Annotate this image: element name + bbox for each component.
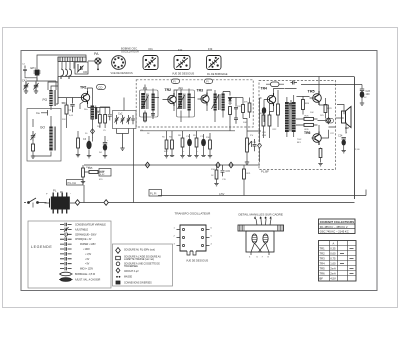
capacitor C13 — [234, 113, 238, 124]
speaker HP — [342, 107, 352, 128]
small resistor in GO box — [32, 144, 35, 151]
ground under C03 — [87, 156, 91, 158]
electrolytic C16 — [262, 100, 266, 123]
table frequencies — [319, 219, 356, 234]
transformer FI3 primary — [214, 94, 217, 111]
resistor R8 — [181, 138, 184, 147]
svg-text:PAPIER • 125V: PAPIER • 125V — [80, 243, 96, 246]
coil GO winding — [49, 127, 55, 151]
svg-text:TRAVERSEE: TRAVERSEE — [124, 265, 138, 268]
svg-text:• 6V: • 6V — [85, 259, 90, 261]
wires TR5 TR6 output — [318, 77, 336, 139]
wire long mid vertical — [133, 129, 135, 203]
wire cadre taps — [62, 62, 74, 69]
tuning arrow FI2 — [178, 95, 185, 109]
svg-text:AJUSTABLE: AJUSTABLE — [75, 228, 88, 231]
svg-text:MASSE: MASSE — [124, 276, 133, 279]
svg-text:C24: C24 — [338, 135, 343, 138]
svg-text:PA: PA — [94, 52, 99, 56]
resistor R6 — [171, 140, 174, 149]
capacitor C15 — [221, 165, 231, 176]
switch contact in GO box — [41, 110, 48, 116]
resistor R16 — [214, 165, 218, 186]
resistor R04 — [76, 131, 80, 157]
trimmer capacitor CA1 — [24, 82, 29, 91]
transformer FI1 primary — [141, 93, 145, 109]
wire TR5 base bias — [258, 89, 310, 163]
detail ferrite rod — [238, 225, 284, 231]
resistor R20b — [277, 90, 280, 127]
svg-text:SOUDURE A L'AIDE SOUDURE AU: SOUDURE A L'AIDE SOUDURE AU — [124, 255, 161, 258]
svg-text:LAMETTE TRESSE (voir net): LAMETTE TRESSE (voir net) — [124, 258, 154, 261]
svg-text:CONNEXIONS DIVERSES: CONNEXIONS DIVERSES — [124, 282, 152, 284]
resistor R12 — [229, 107, 232, 123]
trimmer in CO box 2 — [121, 115, 125, 124]
wire pilch drop — [83, 185, 85, 203]
legend resistor dark row12 — [60, 278, 71, 282]
legend2 circle row3 — [116, 262, 120, 266]
electrolytic C11 — [201, 139, 206, 147]
svg-text:-: - — [70, 192, 71, 196]
svg-text:PIL.CH: PIL.CH — [68, 181, 76, 185]
wire antenna junction — [48, 57, 58, 104]
svg-text:HP: HP — [345, 126, 349, 130]
wires FI3 — [215, 90, 223, 122]
svg-text:C15: C15 — [226, 170, 231, 173]
resistor R26 horizontal — [296, 124, 318, 132]
transformer FI1 can outline — [140, 90, 159, 117]
svg-text:VUE DE DESSOUS: VUE DE DESSOUS — [186, 260, 209, 263]
svg-text:LEGENDE: LEGENDE — [31, 245, 52, 249]
svg-text:FI: FI — [173, 81, 176, 84]
wire left column — [26, 78, 56, 91]
transformer driver primary — [285, 102, 289, 132]
svg-text:TR4: TR4 — [320, 262, 326, 266]
svg-text:A: A — [333, 242, 335, 246]
wire volume to BF — [230, 119, 261, 132]
wire AVC line — [140, 130, 235, 132]
svg-text:DETAIL MANILLES SUR CADRE: DETAIL MANILLES SUR CADRE — [239, 213, 283, 217]
transfo pins right — [201, 228, 209, 246]
trimmer in CO box 1 — [115, 115, 119, 124]
main frame — [21, 51, 377, 291]
ground under CA2 — [34, 91, 38, 93]
legend2 square row2 — [116, 256, 121, 259]
capacitor C24 — [338, 135, 346, 153]
transformer FI2 can outline — [177, 90, 195, 117]
svg-text:CIRCUIT A µV: CIRCUIT A µV — [124, 270, 139, 273]
svg-text:R0s: R0s — [84, 109, 88, 111]
label CD1 stadium — [97, 85, 106, 90]
antenna coupling coil loops — [61, 69, 72, 79]
svg-text:• 1,5V: • 1,5V — [85, 254, 92, 256]
legend cap symbol row10 — [60, 267, 72, 271]
ground pot — [245, 162, 249, 164]
transistor TR3 — [198, 93, 210, 106]
svg-text:VUE DE DESSOUS: VUE DE DESSOUS — [172, 73, 195, 76]
transfo pin numbers — [174, 228, 213, 246]
legend cap symbol row1 — [60, 223, 72, 227]
wire TR1 base row — [58, 97, 78, 99]
detail coil 1 — [252, 234, 257, 243]
wire mid low rail — [158, 190, 366, 196]
svg-text:TR3: TR3 — [320, 257, 326, 261]
capacitor top-left corner — [22, 64, 37, 78]
svg-text:PL.PI: PL.PI — [150, 191, 157, 195]
svg-text:47K: 47K — [244, 102, 248, 104]
box GO coil — [27, 109, 61, 162]
wire TR2 collector — [174, 90, 178, 111]
resistor under FI1 — [144, 113, 147, 121]
svg-text:TR3: TR3 — [197, 89, 204, 93]
box legend — [28, 221, 111, 288]
svg-text:4,5V: 4,5V — [330, 277, 336, 281]
tuning capacitor box CD — [75, 62, 88, 74]
svg-text:COURANT COLLECTEURS: COURANT COLLECTEURS — [320, 220, 355, 224]
legend cap symbol row9 — [60, 262, 72, 266]
capacitor CV in box — [77, 64, 84, 73]
transformer FI1 secondary — [152, 94, 155, 111]
svg-text:TR1: TR1 — [80, 86, 87, 90]
detail bottom numbers — [249, 257, 270, 259]
box legend 2 — [113, 244, 173, 286]
ground CO — [120, 134, 124, 151]
node diamond out — [326, 118, 330, 124]
svg-text:22K: 22K — [62, 119, 66, 121]
legend2 texts — [124, 249, 161, 285]
svg-text:FI3: FI3 — [208, 47, 213, 51]
svg-text:2,5Ω: 2,5Ω — [355, 149, 360, 151]
value labels sprinkle — [61, 97, 367, 181]
electrolytic C04 — [103, 136, 107, 156]
transformer driver secondary — [292, 102, 296, 132]
svg-text:CHIMIQUE • 3V: CHIMIQUE • 3V — [75, 239, 92, 241]
value texts BF — [262, 112, 325, 144]
capacitor beside pot — [253, 139, 257, 151]
svg-text:TR6: TR6 — [320, 272, 326, 276]
coil PO winding — [49, 90, 55, 106]
ground under CA1 — [24, 91, 28, 93]
legend texts column 1 — [75, 224, 106, 282]
svg-text:PO: PO — [43, 98, 48, 102]
legend cap symbol row6 — [60, 247, 72, 251]
electrolytic C10 — [187, 139, 192, 147]
svg-text:FIL DE BOBINAGE: FIL DE BOBINAGE — [207, 73, 228, 76]
svg-text:2mA: 2mA — [330, 272, 336, 276]
wires GO box — [33, 116, 51, 156]
transistor TR5 — [310, 91, 322, 105]
capacitor in CO box 4 — [131, 115, 134, 124]
transistor TR2 — [163, 93, 177, 106]
wire top rail — [58, 76, 354, 78]
wire antenna drop — [57, 77, 59, 105]
resistor R19b — [268, 103, 271, 138]
legend resistor oval row11 — [60, 272, 71, 276]
resistor stadium R21 on top — [266, 82, 284, 87]
wire right rail — [354, 77, 356, 200]
capacitor C14 — [230, 98, 238, 114]
detail coil support box — [246, 231, 274, 252]
svg-text:MICA • 125V: MICA • 125V — [80, 268, 94, 271]
svg-text:10K: 10K — [97, 126, 101, 128]
svg-text:BOBINAGE • 0,5 W: BOBINAGE • 0,5 W — [75, 273, 96, 276]
box oscillator block CO — [113, 111, 137, 129]
stadium label FI box b — [205, 79, 213, 84]
svg-text:1,60: 1,60 — [330, 262, 336, 266]
volume potentiometer P1 — [245, 131, 257, 164]
resistor R13 — [236, 98, 244, 119]
svg-text:EP1: EP1 — [31, 66, 37, 70]
svg-text:TR4: TR4 — [261, 87, 268, 91]
capacitor C17 — [289, 100, 293, 109]
svg-text:AJUST. VAL. A CHOISIR: AJUST. VAL. A CHOISIR — [75, 279, 101, 282]
node diamond mid1 — [145, 162, 149, 168]
resistor R23 — [324, 98, 332, 119]
capacitor under FI1 — [151, 114, 155, 120]
electrolytic C03 — [83, 136, 92, 156]
svg-text:TR5: TR5 — [320, 267, 326, 271]
box BF section dashed — [259, 81, 336, 170]
dial drum (vue de dessous) — [112, 56, 126, 70]
svg-text:TR2: TR2 — [320, 252, 326, 256]
legend cap symbol row4 — [60, 236, 72, 241]
legend cap symbol row2 — [60, 227, 72, 232]
FI3 can — [207, 56, 222, 70]
electrolytic C23 — [360, 85, 371, 106]
node diamond choke — [91, 129, 95, 134]
wire battery rail — [80, 202, 355, 204]
wires FI1 — [145, 85, 159, 123]
svg-text:TRANSFO OSCILLATEUR: TRANSFO OSCILLATEUR — [175, 212, 212, 216]
wires driver transformer — [287, 95, 294, 137]
legend2 diamond row1 — [116, 248, 121, 254]
svg-text:4,5V: 4,5V — [100, 174, 105, 176]
legend cap symbol row5 — [60, 242, 72, 246]
transistor TR6 — [312, 132, 322, 146]
svg-text:50K: 50K — [243, 122, 247, 124]
diode detector D1 — [223, 92, 232, 105]
resistor R27 — [318, 148, 322, 166]
battery PL cells — [45, 192, 76, 214]
wire emitter TR1 — [80, 102, 84, 110]
label PL.PI box — [149, 190, 162, 197]
svg-text:FI1 455 KC – 455 KC 2: FI1 455 KC – 455 KC 2 — [320, 225, 348, 229]
resistor R25 horizontal — [296, 116, 318, 121]
transformer FI2 primary — [178, 93, 182, 109]
svg-text:SOUDURE A UNE COSSETTE DE: SOUDURE A UNE COSSETTE DE — [124, 263, 160, 266]
resistor R17 — [260, 108, 265, 138]
svg-text:PL: PL — [53, 189, 57, 193]
legend2 symbols — [116, 248, 121, 285]
box thermistor label — [99, 169, 111, 177]
svg-text:GO: GO — [40, 126, 45, 130]
svg-text:TR5: TR5 — [308, 90, 315, 94]
svg-text:2mA: 2mA — [330, 267, 336, 271]
legend cap symbol row3 — [60, 233, 72, 237]
ground R5R6 — [164, 156, 168, 158]
svg-text:CA1: CA1 — [22, 80, 27, 83]
transformer FI3 secondary — [222, 94, 225, 111]
svg-text:Ca: Ca — [36, 111, 40, 115]
resistor R21b below rail — [243, 165, 252, 196]
transformer FI1 core — [147, 94, 148, 110]
label CC stadium — [326, 118, 334, 123]
svg-text:SOUDURE AU FIL 60Pb (voir): SOUDURE AU FIL 60Pb (voir) — [124, 249, 155, 252]
padder capacitor in GO box — [31, 131, 36, 141]
table voltages — [319, 241, 357, 282]
svg-text:PL.BF: PL.BF — [261, 169, 269, 173]
svg-text:FI1: FI1 — [149, 47, 154, 51]
wire battery feed left — [92, 165, 104, 172]
wire bottom rail mid — [84, 164, 260, 166]
svg-text:TR1: TR1 — [320, 247, 326, 251]
resistor R03 — [104, 107, 107, 128]
transistor TR4 — [264, 93, 276, 106]
svg-text:10K: 10K — [310, 112, 314, 114]
svg-text:OSC 745 KC – 2145 KC: OSC 745 KC – 2145 KC — [320, 230, 349, 234]
wire rail upper right — [301, 84, 362, 86]
resistor R9 — [195, 138, 198, 147]
svg-text:TR2: TR2 — [165, 88, 172, 92]
capacitor C02 — [108, 110, 112, 120]
detail pin callouts — [255, 218, 273, 226]
coil oscillator feedback choke — [91, 88, 98, 142]
svg-text:OSCILLATEUR: OSCILLATEUR — [121, 50, 139, 54]
node diamond mid3 — [229, 162, 233, 168]
trimmer capacitor CA2 — [34, 82, 39, 91]
wires FI2 — [181, 89, 195, 123]
node diamond battery2 — [104, 200, 108, 206]
wire collector row — [88, 107, 110, 110]
capacitor C01 — [68, 98, 75, 113]
resistors under FI box row — [164, 131, 212, 158]
legend2 diamond row4 — [116, 268, 120, 273]
node diamond mid2 — [216, 162, 220, 168]
transformer FI2 secondary — [188, 94, 191, 111]
wire to PA — [88, 60, 95, 62]
legend2 dark square row6 — [116, 281, 120, 284]
resistor R5 — [165, 140, 168, 149]
resistor R02 — [96, 107, 101, 128]
svg-text:FI2: FI2 — [178, 48, 183, 52]
PA jack terminal — [95, 58, 101, 70]
switch INT — [24, 198, 47, 208]
svg-text:• 9V: • 9V — [85, 264, 90, 266]
svg-text:• 160V: • 160V — [83, 249, 90, 251]
svg-text:4,5V: 4,5V — [219, 192, 225, 196]
svg-text:CERAMIQUE • 500V: CERAMIQUE • 500V — [75, 233, 97, 236]
stadium label FI box a — [172, 79, 180, 84]
wire TR3 collector — [207, 90, 212, 111]
svg-text:100: 100 — [366, 93, 371, 96]
svg-text:+: + — [46, 192, 48, 196]
grounds mid row — [180, 156, 184, 158]
wire feedback — [336, 117, 344, 119]
tuning arrow FI1 — [142, 95, 149, 109]
transistor TR1 — [78, 91, 90, 104]
resistor R01 — [62, 98, 68, 128]
svg-text:CONDENSATEUR VARIABLE: CONDENSATEUR VARIABLE — [75, 224, 106, 227]
detail coil 2 — [263, 234, 268, 243]
transfo pins left — [177, 228, 185, 246]
cadre ferrite antenna bar — [58, 57, 86, 62]
svg-text:VUE DE DESSOUS: VUE DE DESSOUS — [111, 72, 134, 75]
wire TR4 collector — [270, 89, 285, 116]
trimmer in CO box 3 — [127, 115, 131, 124]
capacitor C18 on top — [291, 81, 298, 85]
node diamond battery — [75, 200, 79, 206]
transfo oscillateur body — [180, 225, 206, 255]
resistor horizontal R15 — [84, 167, 104, 174]
resistor R24 — [302, 96, 310, 115]
transformer driver core — [290, 103, 291, 132]
label PIL.CH box — [67, 180, 84, 186]
tuning arrow FI3 — [212, 95, 219, 109]
wires speaker — [337, 105, 346, 134]
legend cap symbol row8 — [60, 257, 72, 261]
transformer FI2 core — [184, 94, 185, 110]
legend rows column 1 — [59, 223, 73, 282]
legend2 dots row5 — [117, 276, 118, 277]
wire top-left loop — [37, 55, 86, 69]
FI1 can — [143, 56, 158, 70]
svg-text:5MF: 5MF — [262, 135, 267, 137]
earphone jack EP1 — [34, 70, 41, 82]
svg-text:BF: BF — [320, 277, 324, 281]
legend cap symbol row7 — [60, 252, 72, 256]
svg-text:CTN: CTN — [100, 171, 105, 173]
ground under C04 — [103, 156, 107, 158]
svg-text:CD: CD — [98, 85, 102, 89]
svg-text:0,60: 0,60 — [330, 252, 336, 256]
box FI section dashed — [136, 80, 253, 127]
detail fan wires — [251, 243, 269, 255]
wire PO to TR1 — [51, 86, 58, 110]
svg-text:TR6: TR6 — [304, 131, 311, 135]
transformer FI3 core — [219, 94, 220, 110]
resistor R14 column — [81, 165, 85, 184]
svg-text:0,75: 0,75 — [330, 257, 336, 261]
wire TR1 collector — [88, 88, 93, 107]
ground GO box — [31, 156, 35, 158]
svg-text:0,35: 0,35 — [330, 247, 336, 251]
resistor R10 — [209, 140, 212, 149]
wires CO box — [117, 98, 129, 134]
FI2 can — [174, 56, 190, 70]
svg-text:T.EX: T.EX — [297, 139, 302, 141]
svg-text:FI: FI — [206, 81, 209, 84]
resistor R19 — [248, 98, 251, 119]
